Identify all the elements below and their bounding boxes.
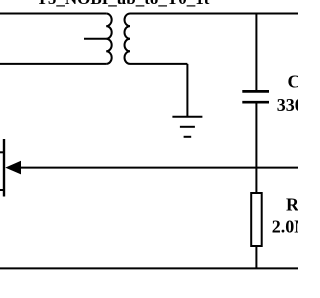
wire primary bottom lead	[0, 63, 106, 65]
wire right bus upper	[255, 14, 257, 91]
transformer T1 primary winding	[106, 14, 112, 64]
capacitor C1	[242, 91, 269, 102]
transistor Q1 drain stub	[0, 151, 4, 153]
transformer T1 primary center-tap stub	[84, 38, 106, 40]
transistor Q1 channel bar	[3, 139, 5, 197]
svg-text:T5_NOBI_ub_to_T0_1t: T5_NOBI_ub_to_T0_1t	[37, 0, 210, 8]
svg-text:2.0M: 2.0M	[272, 217, 298, 237]
wire right bus lower	[255, 246, 257, 269]
svg-text:C: C	[288, 72, 299, 92]
wire primary top lead	[0, 13, 106, 15]
svg-text:R: R	[286, 195, 298, 215]
transistor Q1 gate arrowhead	[5, 161, 21, 175]
wire ground stem	[186, 64, 188, 117]
wire secondary bottom lead	[130, 63, 187, 65]
transformer T1 secondary winding	[125, 14, 131, 64]
wire gate line	[19, 167, 298, 169]
wire bottom bus	[0, 267, 298, 269]
svg-text:3300: 3300	[277, 95, 298, 115]
wire top bus	[130, 13, 298, 15]
ground	[172, 117, 202, 137]
resistor R1 body	[251, 193, 262, 246]
transistor Q1 source stub	[0, 189, 4, 191]
wire right bus middle	[255, 104, 257, 194]
